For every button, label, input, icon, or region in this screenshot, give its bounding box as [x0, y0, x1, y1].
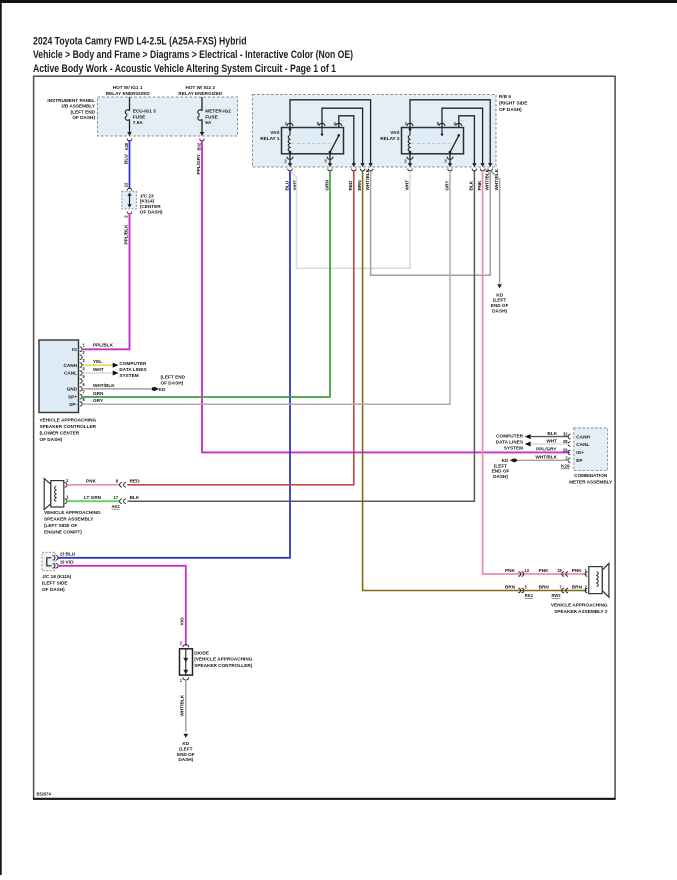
svg-text:J/B ASSEMBLY: J/B ASSEMBLY	[61, 104, 96, 109]
svg-text:KD: KD	[159, 387, 166, 392]
svg-text:IG: IG	[72, 347, 77, 352]
wire LT GRN speaker1 pin1	[67, 495, 119, 501]
diode D1 (vehicle approaching speaker controller)	[180, 641, 253, 683]
svg-text:WHT: WHT	[93, 367, 104, 372]
svg-text:PNK: PNK	[86, 478, 97, 483]
svg-text:RELAY 2: RELAY 2	[380, 136, 400, 141]
svg-text:(K314): (K314)	[140, 199, 155, 204]
diagram border frame	[34, 76, 616, 799]
relay1 pin 1	[287, 123, 293, 126]
inline connector 8 on RED wire	[116, 478, 140, 487]
wire WHT meter CANL to data lines	[531, 443, 569, 445]
svg-text:CANH: CANH	[576, 434, 590, 439]
fuse ECU-IG1 3 7.5A	[125, 97, 156, 136]
svg-text:RELAY 1: RELAY 1	[260, 136, 280, 141]
relay2 pin 1	[407, 123, 413, 126]
svg-text:BLU: BLU	[284, 180, 289, 190]
wire WHT/BLK meter EP to KD	[517, 459, 569, 461]
svg-text:PPL/BLK: PPL/BLK	[123, 224, 128, 245]
svg-text:IG+: IG+	[576, 450, 584, 455]
wire relay1 pin4 loop to RED exit	[339, 116, 354, 164]
wire YEL controller CANH to data lines	[83, 359, 113, 365]
svg-text:RED: RED	[130, 478, 141, 483]
svg-text:K29: K29	[561, 464, 570, 469]
svg-text:FUSE: FUSE	[205, 114, 218, 119]
svg-text:(LEFT END: (LEFT END	[161, 375, 186, 380]
wire BLK meter CANH to data lines	[531, 436, 569, 438]
relay U1 VAS RELAY 1	[260, 100, 370, 164]
wire PNK relay2 pin5 to speaker2	[483, 171, 587, 574]
hot label fuse 1	[106, 85, 151, 96]
svg-text:PNK: PNK	[572, 568, 583, 573]
svg-text:23: 23	[60, 552, 65, 557]
J/C 23 (K314) junction connector	[122, 188, 163, 218]
svg-text:(VEHICLE APPROACHING: (VEHICLE APPROACHING	[194, 657, 253, 662]
svg-text:2024 Toyota Camry FWD L4-2.5L: 2024 Toyota Camry FWD L4-2.5L (A25A-FXS)…	[33, 36, 247, 48]
fuse METER-IG2 5A	[198, 97, 231, 136]
svg-text:RW2: RW2	[552, 593, 562, 598]
wire PPL/BLK J/C 23 to controller pin 1	[83, 213, 130, 349]
wire BLU fuse1 to J/C 23	[123, 140, 129, 189]
svg-text:WHT/BLK: WHT/BLK	[535, 455, 557, 460]
svg-text:RK1: RK1	[525, 593, 534, 598]
svg-text:METER ASSEMBLY: METER ASSEMBLY	[569, 480, 613, 485]
svg-text:BLK: BLK	[130, 495, 140, 500]
svg-text:WHT/BLK: WHT/BLK	[180, 694, 185, 716]
wire RED relay1 pin4 to speaker1 connector	[127, 171, 353, 485]
svg-text:INSTRUMENT PANEL: INSTRUMENT PANEL	[47, 98, 95, 103]
svg-text:17: 17	[113, 495, 118, 500]
svg-text:SYSTEM: SYSTEM	[504, 446, 523, 451]
relay1 mechanical link (dashed)	[292, 143, 332, 145]
svg-text:SP+: SP+	[68, 394, 77, 399]
speaker SP1 vehicle approaching speaker assembly	[44, 478, 101, 535]
svg-text:J/C 23: J/C 23	[140, 193, 154, 198]
relay1 pin 4	[336, 123, 342, 126]
svg-text:DASH): DASH)	[178, 757, 193, 762]
wire WHT/BLK diode to KD	[180, 679, 186, 731]
svg-text:DASH): DASH)	[493, 474, 508, 479]
svg-text:VIO: VIO	[66, 560, 74, 565]
relay2 pin 3	[449, 154, 451, 164]
svg-text:(LEFT SIDE OF: (LEFT SIDE OF	[44, 523, 77, 528]
svg-text:METER-IG2: METER-IG2	[205, 109, 231, 114]
svg-text:YEL: YEL	[93, 359, 102, 364]
svg-text:PNK: PNK	[477, 180, 482, 191]
relay2 pin 4	[456, 123, 462, 126]
svg-text:ECU-IG1 3: ECU-IG1 3	[133, 109, 156, 114]
svg-text:HOT W/ IG2 2: HOT W/ IG2 2	[185, 85, 215, 90]
svg-text:WHT: WHT	[404, 180, 409, 191]
wire WHT controller CANL to data lines	[83, 367, 113, 373]
svg-text:BLK: BLK	[469, 180, 474, 190]
svg-text:OF DASH): OF DASH)	[72, 115, 95, 120]
svg-text:GRN: GRN	[93, 391, 104, 396]
svg-text:BRN: BRN	[505, 585, 516, 590]
svg-text:BLU: BLU	[66, 552, 76, 557]
connector A38 under fuse 1	[124, 139, 132, 151]
inline connector 17 AK2 on BLK wire	[112, 495, 140, 509]
svg-text:DATA LINES: DATA LINES	[496, 440, 523, 445]
KD ground at meter EP	[492, 458, 517, 479]
svg-text:OF DASH): OF DASH)	[140, 209, 163, 214]
svg-text:KD: KD	[496, 292, 503, 297]
svg-text:COMPUTER: COMPUTER	[496, 433, 523, 438]
svg-text:BLU: BLU	[123, 154, 128, 164]
bottom KD ground symbol	[177, 734, 195, 762]
relay2 mechanical link (dashed)	[412, 143, 452, 145]
svg-text:ENGINE COMPT): ENGINE COMPT)	[44, 530, 82, 535]
svg-text:WHT/BLK: WHT/BLK	[365, 168, 370, 190]
svg-text:(LEFT: (LEFT	[493, 298, 506, 303]
svg-text:BRN: BRN	[357, 180, 362, 191]
svg-text:CANH: CANH	[63, 363, 77, 368]
svg-text:VEHICLE APPROACHING: VEHICLE APPROACHING	[551, 603, 608, 608]
svg-text:(LEFT: (LEFT	[179, 747, 192, 752]
svg-text:RED: RED	[348, 180, 353, 191]
relay2 coil	[409, 129, 411, 135]
svg-text:PPL/GRY: PPL/GRY	[536, 446, 557, 451]
hot label fuse 2	[178, 85, 223, 96]
svg-text:BLK: BLK	[547, 431, 557, 436]
svg-text:GND: GND	[67, 387, 78, 392]
R/B 6 relay block box	[253, 94, 528, 167]
wire relay2 pin4 loop to BLK exit	[459, 116, 475, 164]
wire relay1 pin5 loop to BRN exit	[322, 108, 363, 163]
svg-text:(LEFT SIDE: (LEFT SIDE	[42, 581, 68, 586]
svg-text:GRN: GRN	[324, 179, 329, 190]
svg-text:AK2: AK2	[112, 504, 121, 509]
svg-text:CANL: CANL	[576, 442, 589, 447]
relay1 pin 2	[289, 154, 291, 164]
page left black edge	[0, 0, 2, 875]
svg-text:RELAY ENERGIZED: RELAY ENERGIZED	[178, 91, 223, 96]
svg-text:FUSE: FUSE	[133, 114, 146, 119]
svg-text:DIODE: DIODE	[194, 651, 209, 656]
svg-text:CANL: CANL	[64, 371, 77, 376]
svg-text:(LEFT END: (LEFT END	[71, 109, 96, 114]
KD ground at controller GND	[152, 375, 186, 392]
svg-text:WHT/BLK: WHT/BLK	[494, 168, 499, 190]
relay2 pin 5	[439, 123, 445, 126]
svg-text:WHT: WHT	[546, 438, 557, 443]
svg-text:KD: KD	[182, 741, 189, 746]
svg-text:J/C 18 (K115): J/C 18 (K115)	[42, 574, 72, 579]
wire VIO J/C18 to diode	[58, 566, 186, 646]
speaker SP2 vehicle approaching speaker assembly 2	[551, 563, 609, 614]
svg-text:7.5A: 7.5A	[133, 120, 144, 125]
VAS speaker controller U3 box	[39, 340, 97, 442]
relay1 coil	[289, 129, 291, 135]
wire relay1 pin1 loop to WHT/BLK exit	[290, 100, 371, 164]
svg-text:VEHICLE APPROACHING: VEHICLE APPROACHING	[44, 510, 101, 515]
svg-text:LT GRN: LT GRN	[84, 495, 102, 500]
svg-text:PPL/GRY: PPL/GRY	[196, 153, 201, 174]
wire PPL/GRY fuse2 to combination meter	[196, 140, 570, 452]
svg-text:A38: A38	[124, 142, 129, 150]
wire WHT/BLK controller GND to KD	[83, 383, 151, 389]
svg-text:VIO: VIO	[180, 617, 185, 625]
diagram border bottom edge	[33, 798, 615, 800]
computer data lines system arrows (left)	[113, 361, 147, 378]
svg-text:OF DASH): OF DASH)	[42, 587, 65, 592]
combination meter assembly box	[535, 428, 613, 485]
PNK wire labels and connectors 13 / 18	[505, 568, 588, 576]
wire WHT/BLK relay1 pin1 to relay2 pin1	[371, 171, 491, 275]
svg-text:B32: B32	[196, 142, 201, 150]
svg-text:13: 13	[524, 568, 529, 573]
relay2 switch arm pin3 to pin4	[450, 135, 459, 152]
svg-text:WHT/BLK: WHT/BLK	[485, 168, 490, 190]
svg-text:BRN: BRN	[539, 585, 550, 590]
svg-text:PNK: PNK	[505, 568, 516, 573]
svg-text:VEHICLE APPROACHING: VEHICLE APPROACHING	[40, 418, 97, 423]
svg-text:SP-: SP-	[69, 402, 77, 407]
svg-text:END OF: END OF	[492, 469, 510, 474]
svg-text:RELAY ENERGIZED: RELAY ENERGIZED	[106, 91, 151, 96]
svg-text:VAS: VAS	[390, 130, 399, 135]
svg-text:PPL/BLK: PPL/BLK	[93, 342, 114, 347]
computer data lines system arrows (right)	[496, 433, 531, 450]
svg-text:OF DASH): OF DASH)	[40, 437, 63, 442]
BRN wire labels and connectors 3 RK1 / 7 RW2	[505, 585, 588, 599]
svg-text:DATA LINES: DATA LINES	[119, 367, 146, 372]
relay U2 VAS RELAY 2	[380, 100, 490, 164]
svg-text:R/B 6: R/B 6	[499, 94, 511, 99]
svg-text:PNK: PNK	[539, 568, 550, 573]
wire relay2 pin1 loop to WHT/BLK exit	[410, 100, 490, 164]
J/C 18 (K115) junction connector	[42, 552, 76, 592]
wire BLK relay2 pin4 to speaker1 connector	[127, 171, 474, 501]
svg-text:END OF: END OF	[177, 752, 195, 757]
wire BRN relay1 pin5 to speaker2	[363, 171, 587, 591]
svg-text:Active Body Work - Acoustic Ve: Active Body Work - Acoustic Vehicle Alte…	[33, 63, 336, 75]
connector B32 under fuse 2	[196, 139, 204, 151]
svg-text:COMBINATION: COMBINATION	[574, 473, 608, 478]
svg-text:B52974: B52974	[37, 792, 52, 797]
svg-text:5A: 5A	[205, 120, 212, 125]
svg-text:GRY: GRY	[444, 180, 449, 191]
relay1 pin 3	[329, 154, 331, 164]
wire GRN relay1 pin3 to controller SP+	[83, 171, 330, 397]
wire WHT/BLK branch to right KD ground	[491, 171, 500, 283]
svg-text:COMPUTER: COMPUTER	[119, 361, 146, 366]
svg-text:BRN: BRN	[572, 585, 583, 590]
relay1 switch arm pin3 to pin4	[330, 135, 339, 152]
svg-text:OF DASH): OF DASH)	[161, 380, 184, 385]
controller pin arcs 1-8	[80, 347, 82, 406]
svg-text:SPEAKER CONTROLLER: SPEAKER CONTROLLER	[40, 424, 97, 429]
svg-text:SPEAKER ASSEMBLY 2: SPEAKER ASSEMBLY 2	[554, 609, 608, 614]
R/B6 exit connector arcs	[288, 169, 493, 171]
svg-text:GRY: GRY	[93, 398, 104, 403]
svg-text:EP: EP	[576, 458, 582, 463]
svg-text:VAS: VAS	[270, 130, 279, 135]
svg-text:(LEFT: (LEFT	[494, 463, 507, 468]
wire BLU relay1 pin2 to J/C 18	[58, 171, 290, 558]
svg-text:(CENTER: (CENTER	[140, 204, 161, 209]
svg-text:18: 18	[557, 568, 562, 573]
page top black bar	[0, 0, 677, 3]
svg-text:19: 19	[60, 560, 65, 565]
svg-text:(RIGHT SIDE: (RIGHT SIDE	[499, 101, 527, 106]
svg-text:22: 22	[124, 182, 129, 187]
instrument panel J/B assembly box	[47, 97, 237, 136]
relay2 pin 2	[409, 154, 411, 164]
relay exit wire labels	[284, 168, 499, 190]
wire relay2 pin5 loop to PNK exit	[442, 108, 483, 163]
svg-text:29: 29	[563, 448, 568, 453]
svg-text:END OF: END OF	[491, 303, 509, 308]
R/B6 exit arrows at dashed edge	[288, 163, 493, 167]
svg-text:SPEAKER ASSEMBLY: SPEAKER ASSEMBLY	[44, 517, 94, 522]
svg-text:(LOWER CENTER: (LOWER CENTER	[40, 431, 80, 436]
wire GRY relay2 pin3 to controller SP-	[83, 171, 450, 404]
relay1 pin 5	[319, 123, 325, 126]
svg-text:OF DASH): OF DASH)	[499, 107, 522, 112]
svg-text:WHT/BLK: WHT/BLK	[93, 383, 115, 388]
wire WHT relay1 pin2 to relay2 pin2	[291, 171, 410, 268]
right KD ground symbol	[491, 284, 509, 313]
svg-text:DASH): DASH)	[492, 308, 507, 313]
svg-text:HOT W/ IG1 1: HOT W/ IG1 1	[113, 85, 143, 90]
svg-text:SPEAKER CONTROLLER): SPEAKER CONTROLLER)	[194, 663, 253, 668]
wire PNK speaker1 pin2	[67, 478, 119, 484]
svg-text:Vehicle > Body and Frame > Dia: Vehicle > Body and Frame > Diagrams > El…	[33, 49, 353, 61]
svg-text:SYSTEM: SYSTEM	[119, 373, 138, 378]
